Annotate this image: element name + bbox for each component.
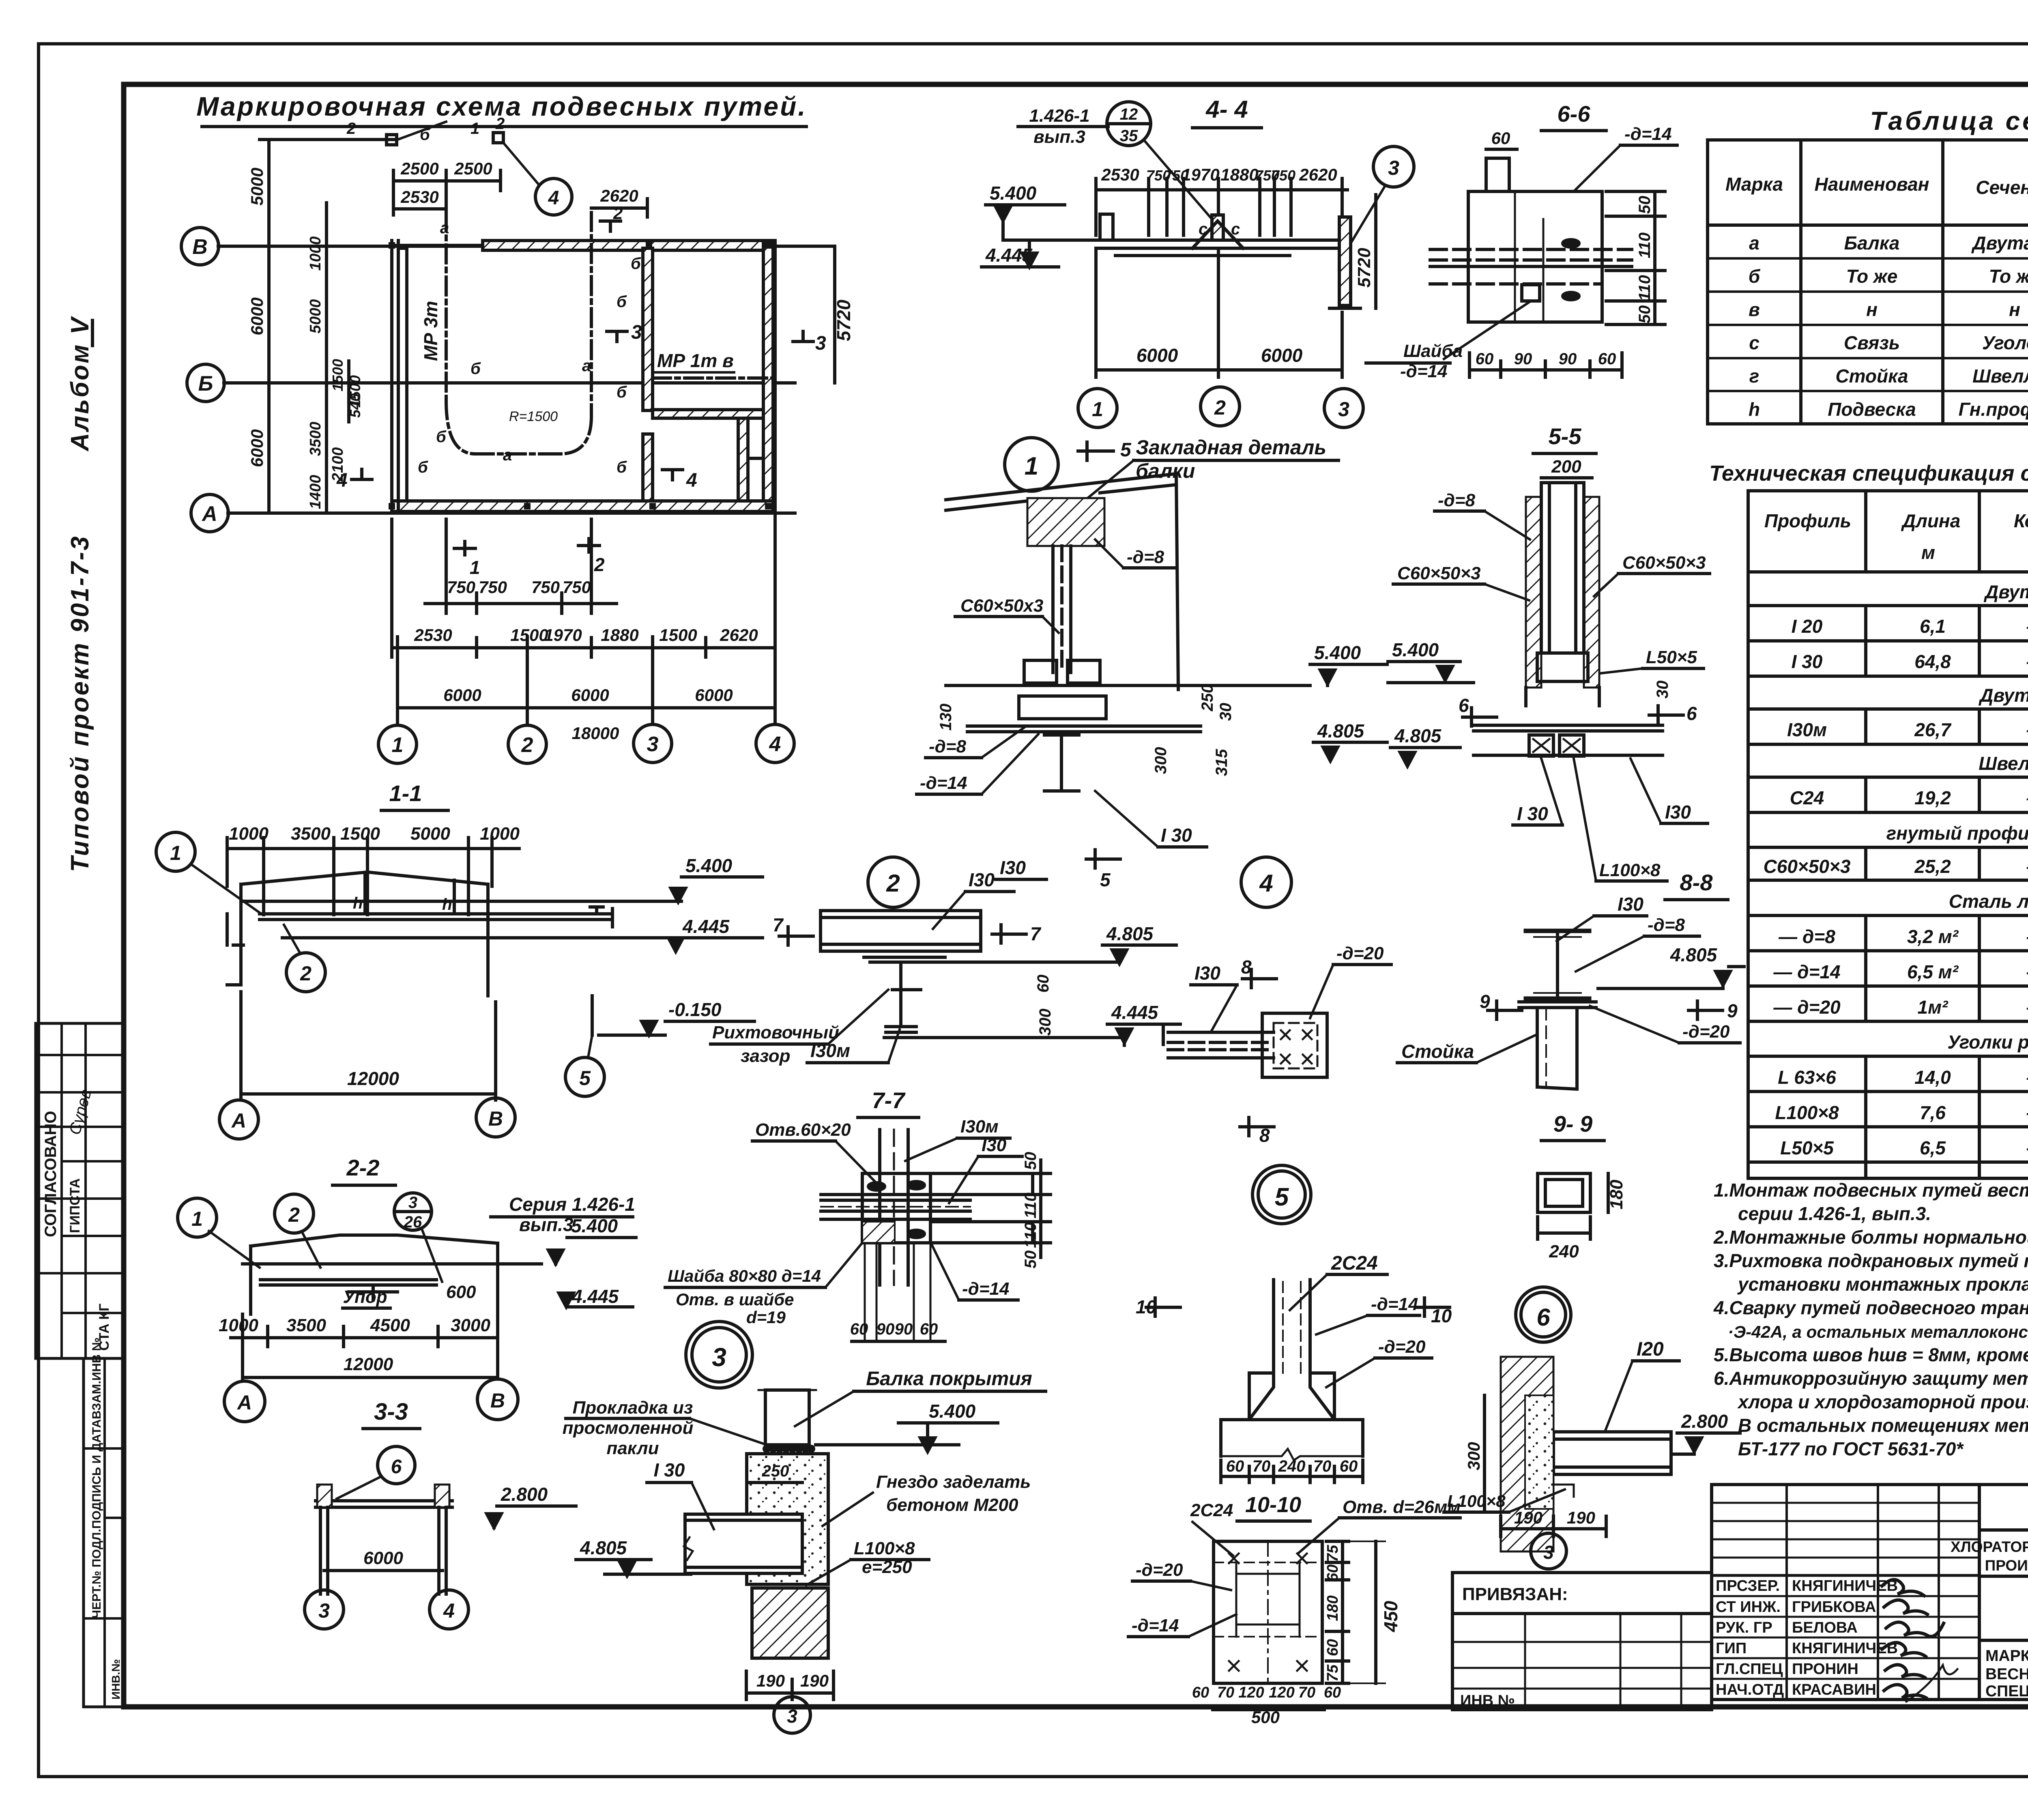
- svg-text:А: А: [236, 1391, 252, 1414]
- svg-text:-д=20: -д=20: [1336, 943, 1384, 963]
- svg-text:6000: 6000: [1261, 345, 1303, 366]
- svg-text:с: с: [1749, 332, 1759, 353]
- svg-text:3500: 3500: [291, 824, 331, 844]
- svg-text:2620: 2620: [1299, 165, 1337, 184]
- svg-text:ГИП: ГИП: [1716, 1640, 1747, 1657]
- svg-text:3: 3: [815, 333, 826, 354]
- svg-text:I30: I30: [969, 869, 995, 890]
- svg-text:I 20: I 20: [1792, 616, 1823, 637]
- svg-text:а: а: [582, 357, 591, 375]
- svg-text:Двутавр: Двутавр: [1971, 232, 2028, 254]
- svg-text:60: 60: [850, 1320, 868, 1338]
- svg-text:Балка: Балка: [1844, 232, 1900, 254]
- svg-text:1880: 1880: [1220, 165, 1258, 184]
- svg-text:60: 60: [1192, 1684, 1209, 1701]
- svg-text:I30м: I30м: [1787, 719, 1827, 740]
- svg-text:серии 1.426-1, вып.3.: серии 1.426-1, вып.3.: [1738, 1203, 1931, 1224]
- svg-text:—: —: [2026, 1102, 2028, 1123]
- svg-text:—: —: [2026, 651, 2028, 672]
- svg-text:75: 75: [1324, 1545, 1341, 1562]
- svg-text:70: 70: [1298, 1684, 1315, 1701]
- svg-text:—: —: [2026, 616, 2028, 637]
- svg-text:Шайба 80×80 д=14: Шайба 80×80 д=14: [668, 1266, 821, 1285]
- svg-text:ИНВ.№: ИНВ.№: [110, 1659, 122, 1700]
- svg-text:450: 450: [1380, 1601, 1401, 1632]
- svg-text:10: 10: [1431, 1305, 1452, 1326]
- svg-text:1.Монтаж подвесных путей вести: 1.Монтаж подвесных путей вести в соответ…: [1714, 1180, 2028, 1201]
- svg-text:50: 50: [1022, 1152, 1040, 1170]
- svg-text:В: В: [488, 1107, 503, 1130]
- svg-text:г: г: [1749, 365, 1759, 387]
- svg-text:L50×5: L50×5: [1780, 1137, 1834, 1158]
- svg-text:250: 250: [1199, 684, 1216, 712]
- svg-text:6000: 6000: [247, 297, 266, 335]
- svg-text:8-8: 8-8: [1680, 870, 1713, 895]
- svg-text:А: А: [231, 1109, 246, 1132]
- svg-text:То же: То же: [1846, 266, 1898, 287]
- svg-text:пакли: пакли: [607, 1438, 659, 1458]
- svg-text:5.400: 5.400: [990, 183, 1037, 204]
- svg-text:Швеллеры — ГОСТ 8240-72: Швеллеры — ГОСТ 8240-72: [1979, 753, 2028, 774]
- svg-text:—: —: [2026, 787, 2028, 808]
- svg-text:L 63×6: L 63×6: [1778, 1067, 1836, 1088]
- svg-text:315: 315: [1213, 749, 1231, 776]
- svg-text:9: 9: [1727, 1000, 1738, 1021]
- svg-text:—: —: [2026, 856, 2028, 877]
- svg-text:60: 60: [1034, 975, 1052, 993]
- svg-text:6000: 6000: [443, 685, 481, 705]
- svg-text:12: 12: [1120, 105, 1138, 123]
- svg-text:2: 2: [288, 1203, 300, 1226]
- svg-text:в: в: [1749, 299, 1760, 320]
- svg-text:4.445: 4.445: [1111, 1002, 1159, 1023]
- svg-text:Закладная деталь: Закладная деталь: [1136, 436, 1326, 459]
- svg-text:гнутый профиль - швеллеры по: гнутый профиль - швеллеры по ГОСТ 8278-6…: [1886, 823, 2028, 844]
- svg-text:Длина: Длина: [1901, 510, 1960, 531]
- svg-text:110: 110: [1636, 232, 1654, 258]
- svg-text:190: 190: [1514, 1508, 1542, 1527]
- svg-text:-д=14: -д=14: [1624, 124, 1672, 144]
- svg-text:1500: 1500: [329, 359, 346, 391]
- svg-text:1: 1: [470, 120, 479, 138]
- svg-text:7,6: 7,6: [1920, 1102, 1946, 1123]
- svg-text:3,2 м²: 3,2 м²: [1907, 926, 1959, 947]
- svg-text:-д=14: -д=14: [1371, 1294, 1418, 1314]
- svg-text:2.800: 2.800: [501, 1484, 548, 1505]
- svg-text:Уголок: Уголок: [1982, 332, 2028, 353]
- svg-text:750: 750: [531, 578, 560, 597]
- svg-text:8: 8: [1259, 1125, 1270, 1146]
- svg-text:НАЧ.ОТД: НАЧ.ОТД: [1716, 1681, 1784, 1698]
- svg-text:2: 2: [300, 962, 312, 985]
- svg-text:Отв.60×20: Отв.60×20: [755, 1120, 851, 1140]
- svg-text:1000: 1000: [307, 236, 324, 271]
- svg-text:Двутавры - ГОСТ 8239-72: Двутавры - ГОСТ 8239-72: [1983, 581, 2028, 602]
- svg-text:h: h: [353, 894, 363, 912]
- svg-text:-д=8: -д=8: [1438, 490, 1476, 510]
- svg-text:14,0: 14,0: [1914, 1067, 1951, 1088]
- svg-text:Серия 1.426-1: Серия 1.426-1: [509, 1194, 635, 1215]
- svg-text:Балка покрытия: Балка покрытия: [866, 1368, 1032, 1390]
- svg-text:4: 4: [443, 1599, 455, 1622]
- svg-text:60: 60: [1491, 129, 1510, 148]
- svg-text:2530: 2530: [400, 187, 438, 206]
- svg-text:2С24: 2С24: [1331, 1253, 1378, 1274]
- svg-text:2620: 2620: [600, 186, 638, 205]
- svg-text:540: 540: [347, 393, 363, 418]
- svg-text:300: 300: [1036, 1009, 1054, 1036]
- svg-text:750: 750: [447, 578, 475, 597]
- svg-text:90: 90: [1514, 350, 1532, 368]
- svg-text:Техническая спецификация стали: Техническая спецификация стали ВСт3 пс6 …: [1709, 461, 2028, 486]
- svg-text:26,7: 26,7: [1914, 719, 1952, 740]
- svg-text:120: 120: [1238, 1684, 1264, 1701]
- svg-text:— д=8: — д=8: [1778, 926, 1835, 947]
- svg-text:4: 4: [769, 733, 781, 756]
- svg-text:С60×50х3: С60×50х3: [960, 596, 1043, 616]
- svg-text:Упор: Упор: [343, 1287, 387, 1307]
- svg-text:Связь: Связь: [1844, 332, 1900, 353]
- svg-text:ЧЕРТ.№ ПОДЛ.ПОДПИСЬ И ДАТАВЗАМ: ЧЕРТ.№ ПОДЛ.ПОДПИСЬ И ДАТАВЗАМ.ИНВ №: [90, 1337, 103, 1618]
- svg-text:5000: 5000: [410, 824, 450, 844]
- svg-text:25,2: 25,2: [1914, 856, 1951, 877]
- svg-text:— д=20: — д=20: [1773, 997, 1841, 1018]
- svg-text:ПРИВЯЗАН:: ПРИВЯЗАН:: [1462, 1584, 1568, 1604]
- svg-text:2: 2: [521, 733, 533, 757]
- svg-text:1880: 1880: [601, 625, 638, 645]
- svg-text:30: 30: [1654, 681, 1671, 699]
- svg-text:Швеллер: Швеллер: [1972, 365, 2028, 387]
- svg-text:1400: 1400: [307, 475, 324, 509]
- svg-text:1: 1: [470, 557, 480, 578]
- svg-text:3.Рихтовка подкрановых путей: 3.Рихтовка подкрановых путей по вертикал…: [1714, 1250, 2028, 1271]
- svg-text:L100×8: L100×8: [1447, 1491, 1506, 1511]
- svg-text:50: 50: [1636, 196, 1654, 214]
- svg-text:Профиль: Профиль: [1764, 510, 1851, 531]
- svg-text:МР 3т: МР 3т: [420, 301, 441, 361]
- svg-text:12000: 12000: [347, 1068, 399, 1089]
- svg-text:18000: 18000: [572, 724, 619, 743]
- svg-text:-д=8: -д=8: [929, 737, 967, 756]
- svg-text:СОГЛАСОВАНО: СОГЛАСОВАНО: [42, 1111, 60, 1237]
- svg-text:1000: 1000: [480, 824, 520, 844]
- svg-text:5: 5: [1275, 1183, 1289, 1211]
- svg-text:8: 8: [1241, 956, 1252, 978]
- svg-text:б: б: [436, 428, 447, 446]
- svg-text:Сечение: Сечение: [1976, 177, 2028, 198]
- svg-text:4: 4: [336, 470, 348, 491]
- svg-text:СТ ИНЖ.: СТ ИНЖ.: [1716, 1599, 1781, 1616]
- svg-text:190: 190: [756, 1671, 785, 1690]
- svg-text:2.800: 2.800: [1681, 1411, 1728, 1432]
- svg-text:300: 300: [1152, 747, 1170, 774]
- svg-text:5.400: 5.400: [1314, 642, 1361, 663]
- svg-text:I30: I30: [982, 1135, 1007, 1155]
- svg-text:60: 60: [1226, 1457, 1244, 1475]
- svg-text:I30: I30: [1194, 963, 1220, 984]
- svg-text:6: 6: [1459, 695, 1469, 716]
- svg-text:190: 190: [800, 1671, 829, 1690]
- svg-text:Кол-во: Кол-во: [2014, 510, 2028, 531]
- svg-text:R=1500: R=1500: [509, 409, 558, 424]
- svg-text:-д=14: -д=14: [1132, 1616, 1179, 1635]
- svg-text:просмоленной: просмоленной: [563, 1418, 694, 1438]
- svg-text:L100×8: L100×8: [1599, 860, 1661, 880]
- svg-text:750: 750: [1271, 167, 1295, 184]
- svg-text:5720: 5720: [1354, 248, 1374, 288]
- svg-text:б: б: [631, 255, 641, 273]
- svg-text:ГРИБКОВА: ГРИБКОВА: [1792, 1599, 1876, 1616]
- svg-text:300: 300: [1464, 1442, 1483, 1470]
- svg-text:60: 60: [1324, 1684, 1341, 1701]
- svg-text:d=19: d=19: [746, 1308, 786, 1327]
- svg-text:Шайба: Шайба: [1403, 341, 1463, 361]
- svg-text:70: 70: [1252, 1457, 1271, 1475]
- svg-text:4.805: 4.805: [1670, 944, 1718, 965]
- svg-text:4.805: 4.805: [1106, 923, 1154, 944]
- svg-text:2: 2: [886, 870, 900, 897]
- svg-text:Рихтовочный: Рихтовочный: [712, 1023, 839, 1042]
- svg-text:110: 110: [1636, 275, 1654, 301]
- svg-text:1: 1: [191, 1208, 203, 1230]
- svg-text:1970: 1970: [544, 625, 582, 645]
- svg-text:240: 240: [1278, 1457, 1306, 1475]
- svg-text:5000: 5000: [247, 168, 266, 205]
- svg-text:4: 4: [1259, 870, 1273, 897]
- svg-text:5.400: 5.400: [685, 855, 733, 876]
- svg-text:5-5: 5-5: [1549, 423, 1582, 449]
- svg-text:5720: 5720: [833, 299, 854, 341]
- svg-text:64,8: 64,8: [1914, 651, 1951, 672]
- svg-text:6,5 м²: 6,5 м²: [1907, 961, 1959, 982]
- svg-text:6000: 6000: [695, 685, 733, 705]
- svg-text:60: 60: [1340, 1457, 1358, 1475]
- svg-text:250: 250: [762, 1462, 789, 1480]
- svg-text:5.400: 5.400: [571, 1215, 618, 1236]
- svg-text:50: 50: [1022, 1251, 1040, 1269]
- svg-text:120: 120: [1269, 1684, 1294, 1701]
- svg-text:750: 750: [479, 578, 507, 597]
- svg-text:60: 60: [1324, 1639, 1341, 1656]
- svg-text:1м²: 1м²: [1918, 997, 1949, 1018]
- svg-text:м: м: [1921, 542, 1935, 563]
- svg-text:-д=20: -д=20: [1682, 1022, 1730, 1042]
- svg-text:6000: 6000: [1136, 345, 1178, 366]
- svg-text:ГИПСТА: ГИПСТА: [67, 1178, 83, 1233]
- svg-text:С24: С24: [1790, 787, 1824, 808]
- svg-text:6: 6: [1536, 1304, 1550, 1331]
- svg-text:ПРОНИН: ПРОНИН: [1792, 1661, 1858, 1678]
- svg-text:5: 5: [1120, 439, 1132, 461]
- svg-text:ИНВ №: ИНВ №: [1460, 1692, 1515, 1709]
- svg-text:с: с: [1199, 220, 1207, 238]
- svg-text:9: 9: [1480, 991, 1490, 1012]
- svg-text:-д=20: -д=20: [1136, 1560, 1183, 1580]
- svg-text:I 30: I 30: [1792, 651, 1823, 672]
- svg-text:3: 3: [631, 322, 642, 343]
- svg-text:3: 3: [1338, 398, 1349, 421]
- svg-text:90: 90: [895, 1320, 913, 1338]
- svg-text:б: б: [418, 458, 428, 476]
- svg-text:5: 5: [579, 1067, 591, 1089]
- svg-text:6: 6: [391, 1456, 402, 1478]
- svg-text:750: 750: [563, 578, 591, 597]
- svg-text:б: б: [470, 360, 481, 378]
- svg-text:35: 35: [1120, 127, 1138, 145]
- svg-text:1: 1: [1025, 452, 1038, 480]
- svg-text:хлора и хлордозаторной произв: хлора и хлордозаторной производить по та…: [1737, 1391, 2028, 1412]
- svg-text:Альбом V: Альбом V: [66, 316, 94, 452]
- svg-text:Подвеска: Подвеска: [1828, 399, 1916, 420]
- svg-text:2620: 2620: [720, 625, 758, 645]
- svg-text:5000: 5000: [307, 299, 324, 334]
- svg-text:1500: 1500: [340, 824, 380, 844]
- svg-text:6.Антикоррозийную защиту мета: 6.Антикоррозийную защиту металлических к…: [1714, 1368, 2028, 1389]
- svg-text:I20: I20: [1637, 1339, 1664, 1360]
- svg-text:б: б: [617, 458, 627, 476]
- svg-text:3500: 3500: [286, 1315, 326, 1335]
- svg-text:4.445: 4.445: [571, 1286, 619, 1307]
- svg-text:1-1: 1-1: [389, 780, 422, 806]
- svg-text:7-7: 7-7: [872, 1087, 906, 1113]
- svg-text:60: 60: [1476, 350, 1494, 368]
- svg-text:Двутавры - ГОСТ 19425-74: Двутавры - ГОСТ 19425-74: [1978, 685, 2028, 706]
- svg-text:Уголки равнобокие- ГОСТ 8509-: Уголки равнобокие- ГОСТ 8509-72: [1947, 1031, 2028, 1053]
- svg-text:60: 60: [1598, 350, 1616, 368]
- svg-text:12000: 12000: [344, 1354, 393, 1374]
- svg-text:— д=14: — д=14: [1773, 961, 1840, 982]
- svg-text:ХЛОРАТОРНАЯ ДЛЯ ОБЕЗЗАРАЖИВАНИ: ХЛОРАТОРНАЯ ДЛЯ ОБЕЗЗАРАЖИВАНИЯ ПИТЬЕВЫХ…: [1951, 1539, 2028, 1555]
- svg-text:КРАСАВИН: КРАСАВИН: [1792, 1681, 1876, 1698]
- svg-text:4.445: 4.445: [682, 916, 730, 937]
- svg-text:5.Высота швов hшв = 8мм, кром: 5.Высота швов hшв = 8мм, кроме оговоренн…: [1714, 1344, 2028, 1365]
- svg-text:70: 70: [1217, 1684, 1234, 1701]
- svg-text:I 30: I 30: [1517, 803, 1548, 824]
- svg-text:90: 90: [1559, 350, 1577, 368]
- svg-text:10-10: 10-10: [1245, 1493, 1301, 1517]
- svg-text:вып.3: вып.3: [1033, 127, 1085, 147]
- svg-text:2-2: 2-2: [346, 1155, 380, 1180]
- svg-text:В остальных помещениях метал: В остальных помещениях металлоконструкци…: [1738, 1415, 2028, 1436]
- svg-text:Отв. d=26мм: Отв. d=26мм: [1343, 1497, 1461, 1517]
- svg-text:2530: 2530: [1101, 165, 1139, 184]
- svg-text:В: В: [490, 1389, 505, 1412]
- svg-text:I 30: I 30: [1161, 825, 1192, 846]
- svg-text:6,5: 6,5: [1920, 1137, 1946, 1158]
- svg-text:Б: Б: [198, 372, 213, 395]
- svg-text:—: —: [2026, 719, 2028, 740]
- svg-text:Прокладка из: Прокладка из: [573, 1398, 693, 1418]
- svg-text:3: 3: [1543, 1542, 1554, 1563]
- svg-text:ПРОИЗВОДИТЕЛЬНОСТЬЮ 12,5 КГ ТО: ПРОИЗВОДИТЕЛЬНОСТЬЮ 12,5 КГ ТОВАРНОГО ХЛ…: [1985, 1557, 2028, 1574]
- svg-text:-0.150: -0.150: [668, 999, 722, 1020]
- svg-text:С60×50×3: С60×50×3: [1622, 553, 1706, 573]
- svg-text:БЕЛОВА: БЕЛОВА: [1792, 1619, 1858, 1636]
- svg-text:4.805: 4.805: [1317, 720, 1365, 741]
- svg-text:110: 110: [1022, 1222, 1040, 1248]
- svg-text:2: 2: [594, 554, 605, 575]
- svg-text:6000: 6000: [571, 685, 609, 705]
- svg-text:бетоном М200: бетоном М200: [886, 1495, 1018, 1515]
- svg-text:СПЕЦИФИКАЦИИ.: СПЕЦИФИКАЦИИ.: [1985, 1682, 2028, 1700]
- svg-text:I30: I30: [1000, 857, 1026, 878]
- svg-text:—: —: [2026, 1137, 2028, 1158]
- svg-text:зазор: зазор: [741, 1046, 791, 1066]
- svg-text:РУК. ГР: РУК. ГР: [1716, 1619, 1772, 1636]
- svg-text:б: б: [1749, 266, 1761, 287]
- svg-text:60: 60: [920, 1320, 938, 1338]
- svg-text:70: 70: [1313, 1457, 1332, 1475]
- svg-text:4- 4: 4- 4: [1205, 96, 1248, 123]
- svg-text:ВЕСНЫХ ПУТЕИ. РАЗРЕЗЫ. УЗЛЫ.: ВЕСНЫХ ПУТЕИ. РАЗРЕЗЫ. УЗЛЫ.: [1985, 1665, 2028, 1683]
- svg-text:I 30: I 30: [654, 1459, 685, 1480]
- svg-text:180: 180: [1607, 1180, 1626, 1210]
- svg-text:130: 130: [937, 704, 955, 731]
- svg-text:ГЛ.СПЕЦ: ГЛ.СПЕЦ: [1716, 1661, 1783, 1678]
- svg-text:3: 3: [787, 1706, 797, 1727]
- svg-text:б: б: [617, 383, 627, 401]
- svg-text:-д=8: -д=8: [1127, 547, 1164, 567]
- svg-text:10: 10: [1136, 1296, 1157, 1317]
- svg-text:190: 190: [1567, 1508, 1595, 1527]
- svg-text:Стойка: Стойка: [1835, 365, 1908, 387]
- svg-text:I30м: I30м: [810, 1040, 850, 1061]
- svg-text:2С24: 2С24: [1190, 1500, 1233, 1520]
- svg-text:7: 7: [1030, 923, 1042, 944]
- svg-text:ПРСЗЕР.: ПРСЗЕР.: [1716, 1577, 1780, 1594]
- svg-text:200: 200: [1551, 457, 1581, 477]
- svg-text:Отв. в шайбе: Отв. в шайбе: [676, 1290, 794, 1309]
- svg-text:9- 9: 9- 9: [1553, 1111, 1593, 1137]
- svg-text:26: 26: [404, 1213, 422, 1231]
- svg-text:240: 240: [1549, 1242, 1579, 1261]
- svg-text:2: 2: [346, 120, 356, 138]
- svg-text:3: 3: [647, 733, 659, 756]
- svg-text:С60×50×3: С60×50×3: [1764, 856, 1851, 877]
- svg-text:h: h: [1749, 399, 1760, 420]
- svg-text:4.805: 4.805: [580, 1537, 627, 1558]
- svg-text:3500: 3500: [307, 422, 324, 456]
- svg-text:б: б: [617, 293, 627, 311]
- svg-text:6,1: 6,1: [1920, 616, 1946, 637]
- svg-text:Наименован: Наименован: [1815, 174, 1929, 195]
- svg-text:Гн.профиль: Гн.профиль: [1959, 399, 2028, 420]
- svg-text:4500: 4500: [370, 1315, 410, 1335]
- svg-text:н: н: [1866, 299, 1878, 320]
- svg-text:1970: 1970: [1182, 165, 1219, 184]
- svg-text:1500: 1500: [659, 625, 697, 645]
- svg-text:-д=20: -д=20: [1378, 1337, 1426, 1357]
- svg-text:6000: 6000: [363, 1548, 403, 1568]
- svg-text:1000: 1000: [219, 1315, 258, 1335]
- svg-text:с: с: [1231, 220, 1240, 238]
- svg-text:2: 2: [613, 204, 623, 223]
- svg-text:I30: I30: [1665, 801, 1691, 823]
- svg-text:С60×50×3: С60×50×3: [1397, 563, 1481, 583]
- svg-text:2530: 2530: [414, 625, 452, 645]
- svg-text:I30м: I30м: [960, 1117, 999, 1137]
- svg-text:L50×5: L50×5: [1646, 647, 1697, 667]
- svg-text:-д=14: -д=14: [920, 773, 967, 793]
- svg-text:Марка: Марка: [1725, 174, 1783, 195]
- svg-text:То же: То же: [1989, 266, 2028, 287]
- svg-text:1: 1: [392, 733, 404, 757]
- svg-text:6-6: 6-6: [1558, 101, 1591, 127]
- svg-text:установки монтажных прокладок: установки монтажных прокладок в зазор д=…: [1737, 1274, 2028, 1295]
- svg-text:-д=8: -д=8: [1648, 915, 1685, 935]
- svg-text:-д=14: -д=14: [962, 1279, 1010, 1299]
- svg-text:Стойка: Стойка: [1401, 1041, 1474, 1062]
